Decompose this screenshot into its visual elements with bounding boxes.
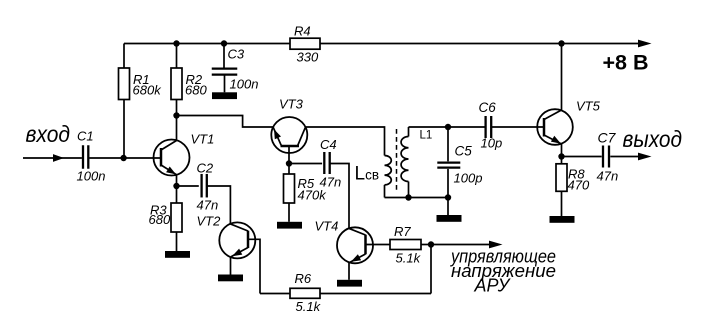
capacitor C7	[602, 146, 604, 168]
wire L1 top to C5 node	[409, 126, 449, 128]
transistor VT4 circle	[337, 227, 373, 263]
arrowhead input	[53, 154, 64, 162]
transistor VT5 emitter arrow	[551, 136, 561, 144]
wire emitter node to R3	[176, 186, 178, 203]
wire C5 node to ground	[447, 198, 449, 216]
arrowhead output	[638, 153, 652, 161]
wire bottom AGC rail right	[320, 293, 431, 295]
svg-text:Lсв: Lсв	[355, 164, 380, 185]
wire C5 node to C6	[448, 126, 486, 128]
wire R2 top	[176, 44, 178, 69]
transistor VT5 collector leg	[544, 110, 562, 120]
capacitor C4	[323, 152, 325, 174]
transistor VT1 collector leg	[161, 141, 177, 151]
svg-text:C2: C2	[197, 161, 214, 176]
svg-text:5.1k: 5.1k	[296, 299, 322, 314]
resistor R6	[290, 288, 320, 298]
junction VT1 collector node	[173, 112, 179, 118]
svg-text:L1: L1	[420, 130, 433, 142]
resistor R4	[290, 38, 320, 49]
wire R5 to ground	[288, 203, 290, 222]
ground C5	[437, 215, 462, 222]
junction VT1 emitter node	[173, 183, 179, 189]
svg-text:C1: C1	[77, 129, 94, 144]
transistor VT2 emitter arrow	[232, 249, 242, 257]
wire VT3 collector to Lsv	[305, 127, 384, 156]
svg-text:VT4: VT4	[315, 219, 339, 234]
ground R8	[550, 216, 575, 223]
wire C3 to ground	[224, 75, 226, 92]
resistor R5	[284, 174, 295, 203]
transformer core (dashed)	[396, 129, 398, 191]
wire R8 to ground	[561, 191, 563, 216]
wire C5 top	[447, 127, 449, 161]
svg-text:47n: 47n	[597, 169, 619, 184]
svg-text:10p: 10p	[481, 136, 503, 151]
arrowhead AGC output	[489, 241, 503, 249]
junction rail-VT5 collector	[558, 40, 564, 46]
wire bottom AGC rail left	[260, 293, 290, 295]
resistor R1	[119, 68, 130, 100]
svg-text:470: 470	[568, 178, 590, 193]
wire R3 to ground	[176, 232, 178, 251]
wire R2 bottom to VT1 collector	[176, 100, 178, 141]
svg-text:+8 В: +8 В	[603, 51, 649, 75]
wire R1 top (rail corner)	[123, 44, 125, 69]
transistor VT5 circle	[537, 109, 573, 145]
transistor VT4 base bar	[364, 235, 367, 255]
svg-text:470k: 470k	[298, 188, 328, 203]
svg-text:C5: C5	[455, 144, 473, 159]
inductor L1 winding	[401, 137, 408, 182]
svg-text:VT1: VT1	[191, 132, 215, 147]
resistor R8	[556, 164, 567, 192]
wire emitter node to C7	[562, 156, 602, 158]
svg-text:АРУ: АРУ	[474, 276, 511, 296]
wire C5 bottom	[447, 169, 449, 198]
wire emitter node to R8	[561, 157, 563, 165]
svg-text:выход: выход	[623, 126, 683, 152]
wire VT1 emitter down	[176, 175, 178, 186]
wire VT4 emitter to ground	[348, 262, 350, 280]
transistor VT4 emitter leg	[350, 254, 366, 262]
svg-text:680k: 680k	[133, 83, 163, 98]
svg-text:R7: R7	[394, 224, 411, 239]
wire base node to C4	[289, 163, 322, 165]
svg-text:C4: C4	[320, 137, 337, 152]
wire C3 branch	[223, 44, 225, 69]
wire collector node to VT3 emitter	[177, 116, 274, 128]
resistor R2	[171, 68, 182, 100]
wire transformer bottom	[385, 197, 449, 199]
wire base node to R5	[288, 164, 290, 175]
svg-text:R4: R4	[294, 24, 311, 39]
svg-text:100n: 100n	[230, 77, 259, 92]
svg-text:47n: 47n	[197, 198, 219, 213]
transistor VT1 circle	[154, 140, 190, 176]
junction C5 bottom node	[445, 194, 451, 200]
junction VT5 emitter node	[558, 153, 564, 159]
wire L1 top stub	[408, 127, 410, 137]
svg-text:вход: вход	[26, 121, 71, 147]
wire VT3 base down	[288, 146, 290, 164]
transistor VT2 emitter leg	[231, 248, 248, 257]
wire top +8V rail right segment	[320, 43, 638, 45]
transistor VT3 base bar	[281, 145, 300, 148]
transistor VT3 emitter arrow	[274, 129, 281, 139]
capacitor C6	[484, 116, 486, 138]
inductor Lsv winding	[385, 156, 392, 185]
wire AGC node down	[430, 245, 432, 294]
ground VT4	[337, 280, 362, 287]
ground VT2	[218, 275, 243, 282]
wire R7 to AGC node	[421, 244, 431, 246]
capacitor C5	[437, 161, 460, 163]
svg-text:VT2: VT2	[197, 214, 222, 229]
junction C5 top node	[445, 124, 451, 130]
capacitor C1	[82, 145, 84, 169]
transistor VT1 emitter arrow	[166, 167, 176, 175]
wire input line	[23, 157, 82, 159]
resistor R7	[390, 240, 421, 250]
wire L1 bottom stub	[408, 182, 410, 198]
svg-text:5.1k: 5.1k	[396, 251, 422, 266]
junction VT3 base node	[286, 160, 292, 166]
transistor VT1 emitter leg	[161, 165, 177, 175]
svg-text:680: 680	[185, 83, 207, 98]
wire C4 to VT4 collector	[330, 164, 349, 229]
ground R5	[277, 222, 302, 229]
wire VT4 base to R7	[366, 244, 391, 246]
wire VT2 base to AGC rail	[248, 239, 260, 293]
transistor VT2 circle	[219, 222, 255, 258]
ground R3	[165, 251, 190, 258]
ground C3	[212, 92, 237, 99]
junction AGC node	[428, 241, 434, 247]
transistor VT5 emitter leg	[544, 135, 562, 144]
transistor VT3 emitter leg	[273, 127, 281, 146]
transistor VT4 collector leg	[349, 228, 366, 235]
svg-text:VT3: VT3	[279, 97, 304, 112]
transistor VT4 emitter arrow	[351, 254, 361, 262]
svg-text:C3: C3	[228, 47, 245, 62]
svg-text:C7: C7	[598, 130, 617, 146]
svg-text:100p: 100p	[454, 171, 483, 186]
wire C1 to VT1 base	[89, 157, 161, 159]
wire C2 to VT2 collector	[207, 186, 231, 224]
resistor R3	[171, 203, 182, 232]
wire C6 to VT5 base	[491, 126, 544, 128]
transistor VT5 base bar	[543, 118, 546, 137]
wire emitter node to C2	[177, 185, 199, 187]
junction rail-C3	[221, 40, 227, 46]
svg-text:R6: R6	[295, 271, 312, 286]
wire AGC arrow line	[431, 244, 490, 246]
svg-text:47n: 47n	[320, 175, 342, 190]
wire top +8V rail left segment	[124, 43, 290, 45]
wire VT5 collector to rail	[561, 44, 563, 111]
wire VT5 emitter down	[561, 144, 563, 157]
wire C7 to output	[610, 156, 638, 158]
wire VT2 emitter to ground	[230, 257, 232, 275]
junction rail-R2	[173, 40, 179, 46]
transistor VT2 base bar	[247, 231, 250, 248]
capacitor C3	[212, 67, 238, 69]
transistor VT1 base bar	[160, 148, 163, 167]
svg-text:C6: C6	[479, 100, 497, 115]
junction input node	[120, 155, 126, 161]
svg-text:330: 330	[297, 50, 319, 65]
svg-text:VT5: VT5	[576, 99, 601, 114]
wire Lsv bottom	[384, 185, 386, 198]
svg-text:680: 680	[149, 212, 171, 227]
transistor VT3 circle	[271, 117, 307, 153]
transistor VT2 collector leg	[230, 224, 248, 231]
svg-text:100n: 100n	[77, 169, 106, 184]
capacitor C2	[200, 174, 202, 198]
wire R1 bottom to input node	[123, 100, 125, 159]
junction L1 bottom	[405, 194, 411, 200]
transistor VT3 collector leg	[298, 127, 306, 146]
arrowhead +8V rail	[638, 40, 652, 48]
